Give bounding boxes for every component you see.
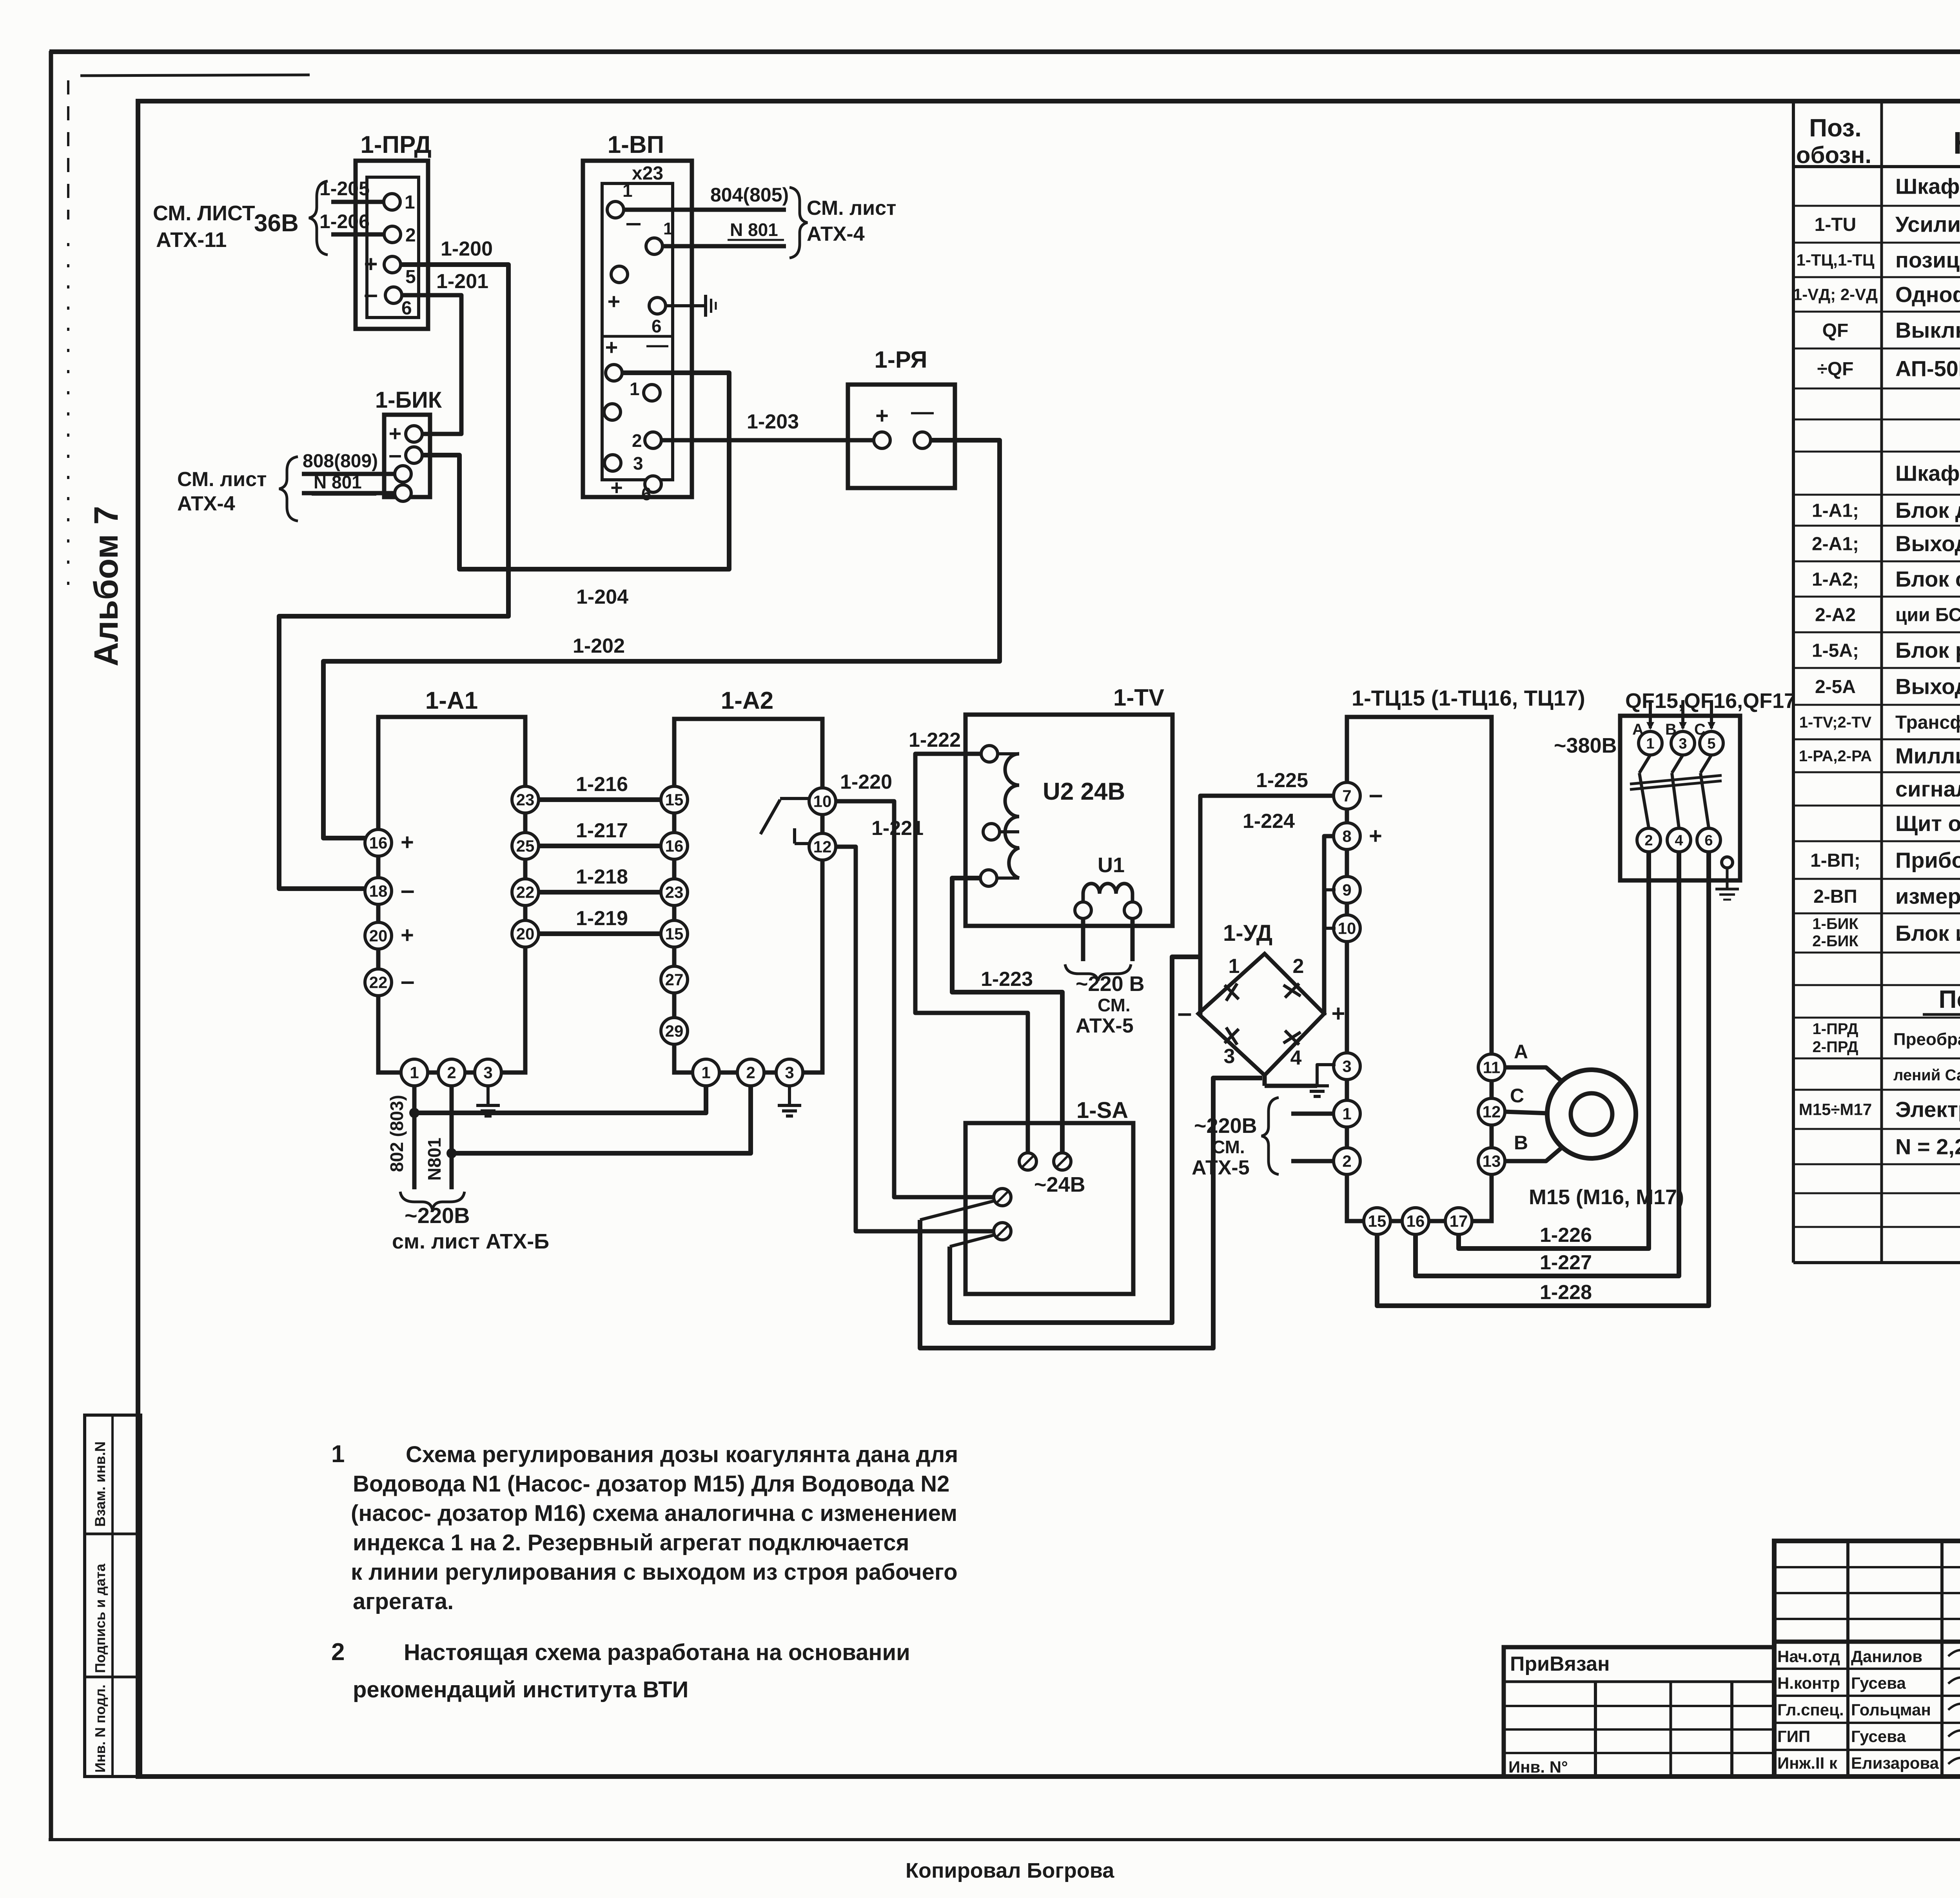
1-A2 terminal 15 lower	[661, 920, 688, 947]
svg-text:1: 1	[701, 1063, 710, 1082]
svg-text:3: 3	[1679, 735, 1687, 752]
svg-text:Гольцман: Гольцман	[1851, 1700, 1931, 1719]
svg-text:3: 3	[1342, 1057, 1351, 1076]
svg-text:15: 15	[665, 925, 684, 943]
svg-text:сигнал 0÷5 мА: сигнал 0÷5 мА	[1895, 777, 1960, 801]
1-SA left terminal lower	[994, 1223, 1011, 1240]
svg-text:2-БИК: 2-БИК	[1812, 933, 1858, 950]
svg-text:1-220: 1-220	[840, 771, 892, 793]
1-TC15 terminal 17	[1445, 1208, 1472, 1234]
svg-text:+: +	[1369, 823, 1382, 849]
svg-text:~380В: ~380В	[1554, 734, 1617, 757]
svg-text:16: 16	[369, 834, 388, 852]
svg-text:20: 20	[516, 925, 535, 943]
bridge diode marks	[1225, 985, 1239, 999]
block 1-VP outer	[583, 161, 692, 497]
svg-text:М15 (М16, М17): М15 (М16, М17)	[1529, 1185, 1684, 1209]
svg-text:+: +	[608, 289, 621, 314]
svg-text:Шкаф регулирования коагулянта: Шкаф регулирования коагулянта N2	[1895, 461, 1960, 486]
1-PRD terminal 1	[384, 194, 400, 210]
binding dashed line top-left	[80, 75, 310, 76]
svg-text:2-А2: 2-А2	[1815, 604, 1856, 625]
svg-text:рекомендаций института ВТИ: рекомендаций института ВТИ	[353, 1677, 688, 1702]
wire phase B to motor	[1505, 1147, 1563, 1161]
svg-text:1: 1	[622, 180, 633, 201]
1-TC15 terminal 15	[1364, 1208, 1390, 1234]
svg-text:Инв. N°: Инв. N°	[1508, 1758, 1568, 1776]
svg-text:~220В: ~220В	[405, 1203, 470, 1228]
svg-text:ГИП: ГИП	[1777, 1727, 1810, 1746]
wire 1-203	[661, 438, 874, 443]
svg-text:1-ТЦ,1-ТЦ: 1-ТЦ,1-ТЦ	[1796, 251, 1874, 269]
svg-text:÷QF: ÷QF	[1817, 359, 1854, 379]
svg-text:Елизарова: Елизарова	[1851, 1754, 1939, 1772]
svg-text:+: +	[610, 476, 623, 499]
brace SM list ATX-4 left	[279, 457, 298, 521]
1-TC15 terminal 2	[1334, 1148, 1360, 1174]
wire N801 from pin2	[450, 1086, 454, 1189]
svg-text:11: 11	[1483, 1058, 1500, 1077]
svg-text:Блок извлечения корня БИК-1: Блок извлечения корня БИК-1	[1895, 921, 1960, 945]
svg-text:QF: QF	[1822, 320, 1849, 341]
wire pin2 to A2 pin2	[452, 1087, 751, 1153]
svg-text:Водовода N1 (Насос- дозатор: Водовода N1 (Насос- дозатор М15) Для Вод…	[353, 1471, 949, 1497]
svg-text:1-БИК: 1-БИК	[375, 387, 442, 413]
1-VP plain terminal	[611, 266, 628, 283]
svg-text:1: 1	[331, 1441, 345, 1468]
ground under 1-A2 pin 3	[788, 1086, 791, 1105]
wire 1-218	[539, 890, 661, 895]
svg-text:5: 5	[405, 267, 416, 287]
svg-text:1-225: 1-225	[1256, 769, 1308, 792]
svg-text:1: 1	[1229, 955, 1240, 978]
wire 1-224	[1324, 836, 1334, 1015]
svg-text:По месту: По месту	[1938, 985, 1960, 1013]
svg-text:N801: N801	[424, 1138, 445, 1181]
svg-text:1-ПРД: 1-ПРД	[360, 131, 431, 158]
svg-text:2: 2	[1342, 1152, 1351, 1170]
signature squiggles	[1948, 1650, 1960, 1772]
svg-text:1-201: 1-201	[436, 270, 488, 293]
svg-text:~24В: ~24В	[1034, 1173, 1085, 1196]
1-BIK terminal N801	[395, 485, 411, 501]
svg-text:В: В	[1514, 1132, 1528, 1154]
QF terminal 3	[1671, 731, 1695, 755]
block 1-SA	[965, 1123, 1133, 1294]
svg-text:25: 25	[516, 837, 535, 855]
motor M15 inner circle	[1571, 1093, 1612, 1135]
svg-text:2: 2	[746, 1063, 755, 1082]
svg-text:Гл.спец.: Гл.спец.	[1777, 1700, 1844, 1719]
1-BIK terminal 808	[395, 466, 411, 482]
svg-text:9: 9	[1342, 881, 1351, 899]
wire 1-225	[1200, 796, 1334, 957]
1-TV bottom terminal	[997, 877, 1019, 880]
svg-text:10: 10	[813, 792, 832, 811]
wire 1-219	[539, 931, 661, 936]
svg-text:~220 В: ~220 В	[1076, 972, 1145, 996]
block QF15	[1620, 716, 1740, 880]
1-SA left terminal upper	[994, 1189, 1011, 1206]
svg-text:1-РА,2-РА: 1-РА,2-РА	[1799, 748, 1872, 765]
svg-text:N 801: N 801	[730, 220, 778, 240]
wire 1-223	[952, 878, 1062, 1153]
svg-text:1: 1	[410, 1063, 419, 1082]
svg-text:4: 4	[1675, 832, 1683, 849]
U1 stubs down	[1081, 919, 1085, 961]
wire N801 to BIK	[302, 491, 394, 495]
wire 1-216	[539, 797, 661, 802]
svg-text:Выключатель автоматический: Выключатель автоматический	[1895, 318, 1960, 343]
wire 1-227	[1416, 852, 1679, 1276]
binding dashed vertical line	[67, 80, 69, 220]
svg-text:2: 2	[331, 1639, 345, 1666]
1-A1 pin 1	[401, 1059, 428, 1086]
svg-text:6: 6	[641, 484, 652, 504]
svg-text:–: –	[1178, 998, 1192, 1027]
svg-text:+: +	[1331, 1000, 1345, 1027]
svg-text:Трансформатор однофазный ОСМ: Трансформатор однофазный ОСМ1-0.1	[1895, 712, 1960, 733]
jumper 9-10	[1325, 890, 1336, 928]
sheet outer border bottom	[49, 1838, 1960, 1841]
wire 1-217	[539, 844, 661, 848]
1-A1 terminal 18 minus	[365, 878, 392, 904]
svg-text:N 801: N 801	[314, 472, 362, 492]
svg-text:~220В: ~220В	[1194, 1114, 1257, 1138]
svg-text:(насос- дозатор М16) схема а: (насос- дозатор М16) схема аналогична с …	[351, 1501, 957, 1526]
svg-text:Шкаф регулирования коагулянта: Шкаф регулирования коагулянта N1	[1895, 174, 1960, 199]
svg-text:1-5А;: 1-5А;	[1812, 640, 1859, 661]
QF terminal 4	[1667, 828, 1691, 852]
QF breaker poles	[1639, 755, 1650, 773]
note 1 text	[331, 1441, 958, 1614]
svg-text:Взам. инв.N: Взам. инв.N	[92, 1441, 108, 1527]
svg-text:Преобразователь измерительный: Преобразователь измерительный разности д…	[1893, 1030, 1960, 1049]
svg-text:1: 1	[1646, 735, 1654, 752]
wire 1-226	[1459, 852, 1649, 1249]
block 1-TC15	[1347, 717, 1492, 1221]
wire 1-206	[331, 232, 384, 237]
svg-text:С: С	[1510, 1085, 1524, 1107]
brace SM list ATK-4 right	[789, 187, 808, 258]
svg-text:13: 13	[1483, 1152, 1501, 1170]
svg-text:1-А1: 1-А1	[425, 687, 478, 714]
svg-text:ции БСС. Выходной сигнал-0.5МА: ции БСС. Выходной сигнал-0.5МА~220В	[1895, 604, 1960, 625]
brace under U1 220V	[1065, 964, 1131, 981]
svg-text:—: —	[911, 399, 934, 425]
1-A1 terminal 25 right	[512, 833, 539, 859]
svg-text:Миллиамперметр М381. Выходной: Миллиамперметр М381. Выходной	[1895, 744, 1960, 768]
svg-text:1-А2;: 1-А2;	[1812, 569, 1859, 590]
wire phase C to motor	[1505, 1112, 1548, 1113]
title block signature rows	[1777, 1647, 1939, 1772]
svg-text:Поз.: Поз.	[1809, 114, 1862, 142]
svg-text:СМ. лист: СМ. лист	[177, 468, 267, 491]
wire 802(803) from pin1	[412, 1086, 417, 1189]
svg-text:Н.контр: Н.контр	[1777, 1674, 1840, 1692]
svg-text:АТХ-11: АТХ-11	[156, 228, 227, 252]
sheet outer border left	[49, 51, 53, 1840]
svg-text:Электродвигатель 4 А 90 L4: Электродвигатель 4 А 90 L4	[1895, 1097, 1960, 1122]
svg-text:СМ.: СМ.	[1212, 1137, 1245, 1157]
svg-text:2-ПРД: 2-ПРД	[1813, 1038, 1858, 1056]
svg-text:АП-50Б-3МТ Iр= 4 А: АП-50Б-3МТ Iр= 4 А	[1895, 356, 1960, 381]
brace 36V	[309, 181, 328, 255]
svg-text:Инв. N подл.: Инв. N подл.	[92, 1684, 108, 1773]
svg-text:15: 15	[665, 791, 684, 809]
svg-text:1-ТU: 1-ТU	[1815, 214, 1857, 235]
1-TC15 terminal 8	[1334, 823, 1360, 849]
wire to chassis ground VP	[666, 304, 706, 307]
1-A2 terminal 29	[661, 1018, 688, 1044]
svg-text:АТХ-4: АТХ-4	[807, 223, 865, 245]
1-TC15 terminal 11	[1478, 1054, 1505, 1081]
bridge 1-UD diamond	[1198, 954, 1324, 1075]
svg-text:см. лист АТХ-Б: см. лист АТХ-Б	[392, 1230, 549, 1253]
1-TV top terminal	[998, 752, 1019, 755]
svg-text:1-223: 1-223	[981, 968, 1033, 991]
1-TV primary winding	[1005, 754, 1019, 878]
parts table grid	[1793, 101, 1960, 1263]
svg-text:2: 2	[405, 225, 416, 246]
1-PRD terminal 2	[384, 226, 401, 243]
1-TC15 terminal 13	[1478, 1148, 1505, 1174]
motor M15 outer circle	[1547, 1070, 1636, 1158]
svg-text:12: 12	[813, 838, 832, 856]
wire 1-201	[402, 295, 461, 434]
QF terminal 1	[1639, 731, 1662, 755]
svg-text:22: 22	[516, 883, 535, 902]
1-A1 terminal 22 minus	[365, 969, 392, 996]
svg-text:АТХ-5: АТХ-5	[1076, 1014, 1134, 1037]
svg-text:Гусева: Гусева	[1851, 1674, 1906, 1692]
svg-text:СМ. ЛИСТ: СМ. ЛИСТ	[153, 201, 255, 225]
svg-text:индекса 1 на 2. Резервный: индекса 1 на 2. Резервный агрегат подклю…	[353, 1530, 909, 1555]
svg-text:1-УД: 1-УД	[1223, 920, 1272, 946]
svg-text:1-ТV: 1-ТV	[1113, 684, 1164, 711]
svg-text:Альбом 7: Альбом 7	[87, 506, 125, 666]
svg-text:Гусева: Гусева	[1851, 1727, 1906, 1746]
svg-text:16: 16	[1406, 1212, 1425, 1230]
1-A1 terminal 23 right	[512, 786, 539, 813]
U1 left terminal	[1075, 902, 1091, 918]
wire SA upper to bridge bottom	[920, 1078, 1262, 1348]
svg-text:1-БИК: 1-БИК	[1812, 915, 1858, 933]
svg-text:+: +	[875, 403, 889, 428]
svg-text:1-226: 1-226	[1540, 1224, 1592, 1247]
svg-text:29: 29	[665, 1022, 684, 1040]
svg-text:1: 1	[663, 219, 673, 238]
1-TC15 terminal 9	[1334, 877, 1360, 903]
block 1-A1	[378, 717, 525, 1072]
svg-text:А: А	[1514, 1041, 1528, 1063]
1-A2 terminal 23	[661, 879, 688, 906]
svg-text:2-А1;: 2-А1;	[1812, 534, 1859, 554]
svg-text:1-VД; 2-VД: 1-VД; 2-VД	[1793, 285, 1878, 304]
svg-text:7: 7	[1342, 787, 1351, 805]
svg-text:+: +	[364, 251, 377, 277]
svg-text:Блок суммирования и сигнализ: Блок суммирования и сигнализа-	[1895, 567, 1960, 592]
1-A1 terminal 20 right	[512, 920, 539, 947]
svg-text:1-217: 1-217	[576, 819, 628, 842]
1-VP terminal 1	[607, 201, 624, 218]
svg-text:измерения 0-5мА. РП-160-09: измерения 0-5мА. РП-160-09	[1895, 884, 1960, 909]
svg-text:Инж.II к: Инж.II к	[1777, 1754, 1838, 1772]
svg-text:ПриВязан: ПриВязан	[1510, 1653, 1610, 1675]
parts table header	[1796, 114, 1960, 168]
wire 1-202	[323, 440, 1000, 838]
svg-text:6: 6	[401, 298, 412, 319]
svg-text:Усилитель тиристорный трех-: Усилитель тиристорный трех-	[1895, 212, 1960, 237]
svg-text:Подпись и дата: Подпись и дата	[92, 1563, 108, 1673]
1-A1 pin 2	[438, 1059, 465, 1086]
1-SA contact diagonal upper	[920, 1201, 993, 1220]
wire 1-205	[331, 200, 384, 204]
svg-text:х23: х23	[632, 163, 663, 184]
1-A2 terminal 15	[661, 786, 688, 813]
1-TC15 terminal 3	[1334, 1053, 1360, 1080]
svg-text:2-5А: 2-5А	[1815, 677, 1856, 697]
svg-text:М15÷М17: М15÷М17	[1799, 1100, 1872, 1119]
1-A2 pin 2	[737, 1059, 764, 1086]
svg-text:Данилов: Данилов	[1851, 1647, 1922, 1666]
svg-text:10: 10	[1338, 919, 1356, 938]
wire pin1 to A2 pin1	[414, 1087, 706, 1113]
1-VP lower plus terminal	[606, 365, 622, 381]
block 1-BIK	[384, 415, 430, 497]
svg-text:20: 20	[369, 927, 388, 945]
wire SA lower to bridge minus	[950, 957, 1200, 1323]
svg-text:СМ.: СМ.	[1098, 995, 1131, 1015]
svg-text:2-ВП: 2-ВП	[1813, 886, 1857, 907]
svg-text:позиционный У-22М: позиционный У-22М	[1895, 248, 1960, 272]
svg-text:Нач.отд: Нач.отд	[1777, 1647, 1840, 1666]
1-TC15 terminal 12	[1478, 1098, 1505, 1125]
svg-text:804(805): 804(805)	[710, 184, 789, 206]
ground near bridge	[1263, 1075, 1267, 1086]
svg-text:4: 4	[1290, 1047, 1302, 1069]
1-A1 terminal 20 plus	[365, 922, 392, 949]
title block main frame	[1774, 1541, 1960, 1777]
svg-text:1: 1	[630, 379, 640, 399]
svg-text:36В: 36В	[254, 210, 299, 237]
svg-text:–: –	[364, 280, 378, 308]
svg-text:12: 12	[1483, 1103, 1501, 1121]
wire 1-228	[1377, 852, 1709, 1306]
1-TV middle tap	[1000, 830, 1019, 833]
svg-text:15: 15	[1368, 1212, 1387, 1230]
svg-text:Выходной сигнал 0-5мА: Выходной сигнал 0-5мА	[1895, 674, 1960, 699]
wire 1-204	[422, 373, 729, 569]
1-VP lower plain terminal	[604, 404, 621, 420]
1-A1 pin 3	[475, 1059, 501, 1086]
1-VP inner divider	[602, 335, 673, 338]
ground under 1-A1 pin 3	[486, 1086, 490, 1105]
svg-text:2: 2	[1293, 955, 1304, 978]
wire 1-221	[836, 847, 994, 1231]
svg-text:Однофазный мост КЦ-402Е: Однофазный мост КЦ-402Е	[1895, 282, 1960, 307]
svg-text:+: +	[401, 829, 414, 855]
svg-text:1-227: 1-227	[1540, 1251, 1592, 1274]
svg-text:агрегата.: агрегата.	[353, 1589, 454, 1614]
svg-text:6: 6	[1704, 832, 1713, 849]
svg-text:+: +	[605, 335, 618, 359]
1-TC15 terminal 1	[1334, 1100, 1360, 1127]
svg-text:обозн.: обозн.	[1796, 142, 1871, 168]
note 2 text	[331, 1639, 910, 1702]
svg-text:808(809): 808(809)	[303, 451, 378, 472]
1-A2 pin 1	[693, 1059, 719, 1086]
sheet outer border top	[49, 49, 1960, 54]
block 1-RYA	[848, 385, 955, 488]
wire 1-220	[836, 801, 994, 1197]
QF terminal 2	[1637, 828, 1661, 852]
1-VP lower terminal 3	[604, 455, 621, 471]
wire to terminal 1 TC15	[1291, 1112, 1334, 1116]
svg-text:лений Сапфир 22 ДД2410-02-УКЛ: лений Сапфир 22 ДД2410-02-УКЛ 3.1-0.25/0…	[1893, 1067, 1960, 1084]
svg-text:–: –	[1369, 780, 1383, 808]
1-SA top terminal left	[1019, 1153, 1036, 1170]
1-TC15 terminal 16	[1402, 1208, 1429, 1234]
svg-text:1-SA: 1-SA	[1076, 1098, 1128, 1123]
svg-text:Выходной сигнал 0-5м.А. ~220: Выходной сигнал 0-5м.А. ~220В	[1895, 531, 1960, 556]
U1 right terminal	[1124, 902, 1141, 918]
svg-text:Схема регулирования дозы коа: Схема регулирования дозы коагулянта дана…	[406, 1442, 958, 1467]
junction pin1 wire	[409, 1108, 419, 1118]
QF terminal 5	[1700, 731, 1723, 755]
QF linkage bar	[1630, 775, 1722, 784]
wire N801 from VP	[662, 244, 786, 249]
left margin stamp table	[85, 1415, 141, 1777]
svg-text:1-А2: 1-А2	[721, 687, 773, 714]
1-TC15 terminal 7	[1334, 782, 1360, 809]
svg-text:Блок ручного управления БРУ-: Блок ручного управления БРУ-22	[1895, 638, 1960, 662]
svg-text:Щит оператора: Щит оператора	[1895, 811, 1960, 836]
brace under 802 N801	[400, 1192, 465, 1210]
1-A2 terminal 16	[661, 833, 688, 859]
svg-text:к линии регулирования с вых: к линии регулирования с выходом из строя…	[351, 1559, 958, 1585]
svg-text:1-228: 1-228	[1540, 1281, 1592, 1304]
QF incoming stubs	[1649, 700, 1652, 728]
svg-text:U2 24В: U2 24В	[1043, 778, 1125, 805]
svg-text:1-ПРД: 1-ПРД	[1813, 1020, 1858, 1038]
svg-text:3: 3	[633, 453, 643, 474]
svg-text:3: 3	[785, 1063, 794, 1082]
svg-text:Копировал Богрова: Копировал Богрова	[906, 1859, 1114, 1882]
wire to terminal 2 TC15	[1291, 1159, 1334, 1163]
svg-text:8: 8	[1342, 827, 1351, 846]
svg-text:17: 17	[1450, 1212, 1468, 1230]
svg-text:1-ВП: 1-ВП	[608, 131, 664, 158]
svg-text:АТХ-5: АТХ-5	[1192, 1156, 1250, 1179]
svg-text:1-200: 1-200	[441, 238, 493, 260]
svg-text:1-ТV;2-ТV: 1-ТV;2-ТV	[1799, 714, 1872, 731]
QF terminal 6	[1697, 828, 1720, 852]
svg-text:–: –	[388, 441, 401, 468]
svg-text:18: 18	[369, 882, 388, 900]
1-A2 terminal 27	[661, 966, 688, 993]
svg-text:СМ. лист: СМ. лист	[807, 197, 896, 220]
svg-text:–: –	[401, 967, 415, 995]
svg-text:1-ВП;: 1-ВП;	[1810, 850, 1860, 871]
svg-text:16: 16	[665, 837, 684, 855]
svg-text:Блок динамической связи БДС: Блок динамической связи БДС	[1895, 498, 1960, 523]
block 1-PRD outer	[356, 161, 428, 329]
svg-text:2: 2	[1644, 832, 1653, 849]
1-SA top terminal right	[1054, 1153, 1071, 1170]
svg-text:1-222: 1-222	[909, 729, 961, 751]
svg-text:АТХ-4: АТХ-4	[177, 492, 235, 515]
